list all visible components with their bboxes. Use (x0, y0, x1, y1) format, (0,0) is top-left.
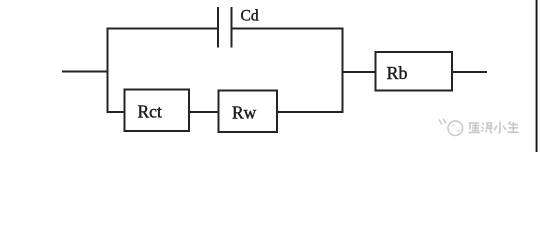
resistor Rw (219, 91, 278, 133)
svg-text:Cd: Cd (241, 8, 259, 25)
wire junction to Rb (342, 71, 376, 73)
wire right lead (452, 71, 487, 73)
wire left vertical branch (107, 28, 109, 114)
svg-text:Rct: Rct (138, 102, 162, 122)
resistor Rb (376, 52, 453, 91)
svg-text:Rb: Rb (387, 63, 408, 83)
label Cd (241, 8, 259, 25)
wire Rct to Rw (189, 111, 219, 113)
wire bottom branch stub to Rct (107, 111, 125, 113)
wire left lead (62, 71, 109, 73)
resistor Rct (125, 90, 190, 132)
wire right vertical branch (342, 28, 344, 114)
capacitor Cd (218, 7, 232, 48)
wire Rw to right vertical (277, 111, 343, 113)
wire top branch right segment (232, 28, 344, 30)
svg-text:Rw: Rw (232, 103, 257, 123)
wire top branch left segment (107, 28, 219, 30)
